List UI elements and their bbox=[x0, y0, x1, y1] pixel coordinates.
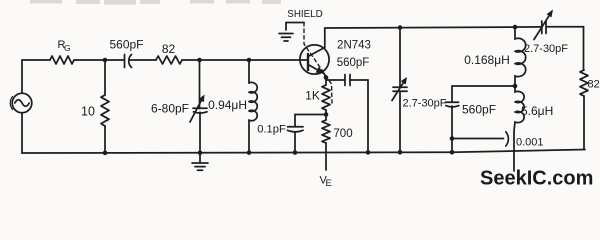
svg-text:10: 10 bbox=[81, 105, 95, 119]
svg-text:2.7-30pF: 2.7-30pF bbox=[402, 98, 446, 110]
svg-text:560pF: 560pF bbox=[337, 57, 370, 69]
svg-text:0.168μH: 0.168μH bbox=[464, 53, 510, 67]
svg-text:1K: 1K bbox=[305, 89, 320, 103]
svg-text:82: 82 bbox=[588, 79, 600, 91]
svg-text:2.7-30pF: 2.7-30pF bbox=[524, 43, 568, 55]
svg-text:6-80pF: 6-80pF bbox=[151, 102, 189, 116]
svg-text:0.94μH: 0.94μH bbox=[208, 98, 247, 112]
svg-text:560pF: 560pF bbox=[462, 103, 496, 117]
svg-text:82: 82 bbox=[162, 42, 176, 56]
svg-text:SHIELD: SHIELD bbox=[287, 9, 322, 20]
svg-text:2N743: 2N743 bbox=[337, 40, 371, 52]
svg-text:E: E bbox=[326, 178, 332, 189]
svg-text:560pF: 560pF bbox=[109, 38, 143, 52]
svg-text:SeekIC.com: SeekIC.com bbox=[480, 168, 593, 190]
svg-text:0.001: 0.001 bbox=[516, 137, 544, 149]
svg-text:0.1pF: 0.1pF bbox=[257, 124, 286, 136]
svg-text:5.6μH: 5.6μH bbox=[521, 104, 553, 118]
svg-text:700: 700 bbox=[333, 128, 352, 140]
svg-text:G: G bbox=[64, 43, 71, 53]
